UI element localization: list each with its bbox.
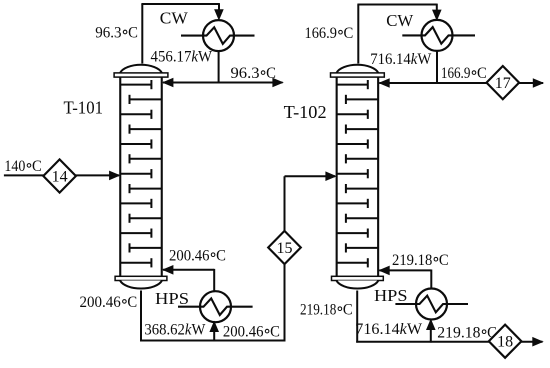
svg-text:219.18: 219.18: [437, 324, 480, 341]
label T-101 distillate temp: 96.3 degC: [231, 65, 276, 82]
svg-text:368.62kW: 368.62kW: [144, 321, 205, 338]
arrow distillate out stream 16: [272, 78, 283, 88]
svg-text:219.18: 219.18: [392, 252, 433, 269]
wire T-101 distillate/reflux header: [163, 82, 283, 84]
svg-text:C: C: [477, 65, 487, 82]
wire T-102 overhead top run: [357, 4, 436, 6]
svg-text:200.46: 200.46: [169, 247, 210, 264]
column T-102 top head: [336, 65, 378, 73]
label reboiler E-104 inlet temp: 219.18 degC: [437, 324, 497, 341]
heat exchanger E-101 condenser (CW): [181, 20, 255, 51]
svg-text:166.9: 166.9: [441, 65, 471, 82]
label T-102 boilup temp: 219.18 degC: [392, 252, 449, 269]
arrow into condenser E-103: [432, 10, 442, 21]
svg-text:C: C: [439, 252, 449, 269]
heat exchanger E-104 reboiler (HPS): [395, 289, 468, 320]
heat exchanger E-102 reboiler (HPS): [178, 291, 253, 322]
label reboiler E-102 inlet temp: 200.46 degC: [223, 324, 280, 341]
svg-text:166.9: 166.9: [305, 25, 338, 42]
wire condenser E-101 outlet: [218, 51, 220, 83]
svg-text:96.3: 96.3: [95, 25, 122, 42]
svg-text:C: C: [216, 247, 226, 264]
stream flag diamond 18 (T-102 bottoms product): [489, 325, 522, 358]
label T-102 condenser inlet temp: 166.9 degC: [305, 25, 354, 42]
column T-101 tray 1: [120, 80, 151, 89]
svg-text:15: 15: [277, 240, 293, 257]
wire down to reboiler E-102: [213, 269, 215, 291]
stream flag diamond 15 (T-101 bottoms to T-102): [268, 231, 301, 264]
label T-102 distillate temp: 166.9 degC: [441, 65, 487, 82]
svg-text:C: C: [266, 65, 276, 82]
arrow distillate out stream 17: [533, 78, 544, 88]
column T-101 bottom flange: [115, 276, 167, 280]
column T-102 body: [337, 76, 379, 277]
svg-text:HPS: HPS: [155, 289, 189, 308]
wire drop into condenser E-101: [218, 3, 220, 12]
arrow reflux into T-102: [378, 78, 389, 88]
wire drop into condenser E-103: [436, 4, 438, 13]
arrow into reboiler E-104: [426, 319, 436, 330]
label T-101 boilup temp: 200.46 degC: [169, 247, 226, 264]
arrow boilup into T-102: [378, 266, 389, 276]
svg-text:CW: CW: [386, 11, 414, 30]
wire down to reboiler E-104: [430, 270, 432, 290]
arrow boilup into T-101: [162, 265, 173, 275]
svg-text:96.3: 96.3: [231, 65, 260, 82]
arrow bottoms out stream 18: [532, 337, 543, 347]
svg-text:C: C: [344, 25, 354, 42]
wire T-101 bottoms down: [140, 291, 142, 342]
column T-101 tray 13: [120, 258, 151, 267]
label feed 14 temp: 140 degC: [4, 158, 41, 175]
svg-text:C: C: [343, 301, 353, 318]
arrow reflux into T-101: [162, 78, 173, 88]
column T-102 tray 7: [337, 169, 368, 178]
wire condenser E-103 outlet: [436, 51, 438, 84]
column T-102 tray 9: [337, 199, 368, 208]
svg-text:456.17kW: 456.17kW: [151, 49, 213, 66]
svg-text:C: C: [270, 324, 280, 341]
stream flag diamond 14 (feed to T-101): [43, 159, 76, 192]
label T-101 condenser inlet temp: 96.3 degC: [95, 25, 138, 42]
svg-text:200.46: 200.46: [223, 324, 264, 341]
column T-102 tray 1: [337, 80, 368, 89]
column T-101 body: [120, 76, 162, 277]
column T-102 bottom head: [336, 281, 378, 289]
svg-text:219.18: 219.18: [300, 301, 337, 318]
svg-text:CW: CW: [160, 8, 189, 27]
column T-101 tray 12: [130, 243, 162, 252]
column T-102 top flange: [331, 73, 385, 77]
column T-101 tray 11: [120, 229, 151, 238]
svg-text:T-101: T-101: [64, 98, 104, 118]
column T-101 tray 6: [130, 154, 162, 163]
column T-102 bottom flange: [332, 276, 384, 280]
svg-text:716.14kW: 716.14kW: [355, 321, 422, 338]
wire feed stream 14: [4, 174, 119, 176]
column T-101 tray 5: [120, 139, 151, 148]
column T-102 tray 11: [337, 229, 368, 238]
svg-text:C: C: [32, 158, 42, 175]
wire T-102 distillate/reflux header: [379, 82, 543, 84]
column T-101 tray 9: [120, 199, 151, 208]
wire T-101 bottoms run: [140, 340, 286, 342]
column T-101 tray 4: [130, 125, 162, 134]
column T-102 tray 10: [346, 214, 378, 223]
svg-text:17: 17: [495, 75, 511, 92]
wire stream 15 riser: [284, 176, 286, 341]
column T-102 tray 4: [346, 125, 378, 134]
svg-text:18: 18: [497, 334, 513, 351]
column T-101 top head: [120, 65, 162, 73]
svg-text:C: C: [127, 294, 137, 311]
column T-102 tray 12: [346, 243, 378, 252]
column T-102 tray 13: [337, 258, 368, 267]
wire T-101 overhead top run: [141, 3, 219, 5]
svg-text:14: 14: [52, 168, 68, 185]
svg-text:C: C: [128, 25, 138, 42]
wire T-102 bottoms down: [356, 291, 358, 343]
column T-102 tray 2: [346, 95, 378, 104]
column T-101 tray 10: [130, 214, 162, 223]
column T-101 tray 7: [120, 169, 151, 178]
column T-102 tray 3: [337, 110, 368, 119]
svg-text:140: 140: [4, 158, 25, 175]
label T-102 bottoms temp: 219.18 degC: [300, 301, 353, 318]
wire stream 15 to T-102: [285, 175, 336, 177]
arrow feed into T-102: [325, 171, 336, 181]
stream flag diamond 17 (T-102 distillate): [487, 66, 520, 99]
arrow feed into T-101: [109, 171, 120, 181]
column T-101 tray 3: [120, 110, 151, 119]
wire T-101 overhead riser: [141, 4, 143, 64]
wire T-102 overhead riser: [357, 5, 359, 64]
wire reboiler E-104 vapor return: [379, 269, 431, 271]
column T-101 top flange: [114, 73, 168, 77]
svg-text:200.46: 200.46: [80, 294, 122, 311]
svg-text:T-102: T-102: [284, 102, 327, 122]
column T-101 tray 2: [130, 95, 162, 104]
wire reboiler E-102 liquid feed: [213, 323, 215, 341]
svg-text:716.14kW: 716.14kW: [370, 51, 431, 68]
column T-101 bottom head: [120, 281, 162, 289]
column T-102 tray 5: [337, 139, 368, 148]
label T-101 bottoms temp: 200.46 degC: [80, 294, 138, 311]
column T-102 tray 6: [346, 154, 378, 163]
arrow into reboiler E-102: [209, 321, 219, 332]
arrow into condenser E-101: [214, 9, 224, 20]
wire T-102 bottoms run: [356, 341, 542, 343]
wire reboiler E-102 vapor return: [163, 269, 214, 271]
column T-102 tray 8: [346, 184, 378, 193]
svg-text:HPS: HPS: [374, 286, 408, 305]
column T-101 tray 8: [130, 184, 162, 193]
heat exchanger E-103 condenser (CW): [402, 20, 475, 51]
wire reboiler E-104 liquid feed: [430, 321, 432, 343]
